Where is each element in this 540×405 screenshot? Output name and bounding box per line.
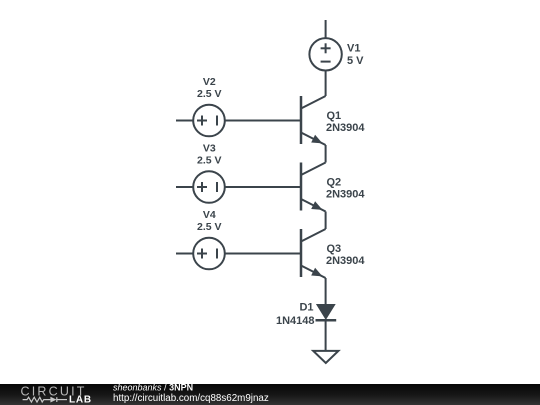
svg-text:2.5 V: 2.5 V (197, 88, 222, 100)
CircuitLab logo squiggle wire resistor diode (23, 397, 67, 403)
svg-text:http://circuitlab.com/cq88s62m: http://circuitlab.com/cq88s62m9jnaz (113, 393, 269, 404)
CircuitLab logo text CIRCUIT (21, 385, 87, 399)
voltage source V4 value label (197, 221, 222, 233)
voltage source V4 body (193, 238, 225, 270)
svg-text:2N3904: 2N3904 (326, 122, 365, 134)
wire left stub of V4 (176, 253, 193, 255)
transistor Q3 base bar (300, 229, 303, 277)
svg-text:5 V: 5 V (347, 55, 364, 67)
voltage source V3 body (193, 171, 225, 203)
svg-text:Q3: Q3 (327, 243, 342, 255)
svg-text:sheonbanks / 3NPN: sheonbanks / 3NPN (113, 383, 193, 393)
transistor Q2 emitter lead with arrow (301, 199, 326, 212)
voltage source V1 value label (347, 55, 364, 67)
svg-text:V4: V4 (203, 209, 216, 221)
ground symbol (313, 351, 338, 363)
svg-text:2.5 V: 2.5 V (197, 221, 222, 233)
wire from V4 to base (226, 253, 302, 255)
voltage source V1 name label (347, 43, 360, 55)
diode D1 name label (299, 302, 313, 314)
svg-text:2.5 V: 2.5 V (197, 154, 222, 166)
transistor Q3 emitter lead with arrow (301, 266, 326, 279)
wire left stub of V2 (176, 120, 193, 122)
voltage source V2 value label (197, 88, 222, 100)
wire top stub above V1 (325, 20, 327, 38)
transistor Q3 name label (327, 243, 342, 255)
transistor Q2 name label (327, 177, 342, 189)
wire from V3 to base (226, 186, 302, 188)
diode D1 body (316, 305, 337, 321)
voltage source V2 body (193, 105, 225, 137)
svg-text:LAB: LAB (69, 395, 92, 405)
voltage source V3 value label (197, 154, 222, 166)
transistor Q1 collector lead (301, 96, 326, 109)
svg-text:1N4148: 1N4148 (276, 315, 315, 327)
wire left stub of V3 (176, 186, 193, 188)
transistor Q3 value label 2N3904 (326, 255, 365, 267)
wire from V2 to base (226, 120, 302, 122)
transistor Q2 collector lead (301, 163, 326, 176)
svg-text:V2: V2 (203, 76, 216, 88)
transistor Q1 emitter lead with arrow (301, 133, 326, 146)
voltage source V4 name label (203, 209, 216, 221)
diode D1 value label 1N4148 (276, 315, 315, 327)
footer author/title text (113, 383, 269, 404)
transistor Q1 base bar (300, 96, 303, 144)
transistor Q1 name label (327, 110, 342, 122)
transistor Q1 value label 2N3904 (326, 122, 365, 134)
svg-text:V3: V3 (203, 143, 216, 155)
transistor Q2 base bar (300, 163, 303, 211)
svg-text:V1: V1 (347, 43, 360, 55)
footer bar (0, 384, 540, 405)
wire D1 cathode to ground (325, 320, 327, 350)
voltage source V3 name label (203, 143, 216, 155)
voltage source V2 name label (203, 76, 216, 88)
wire V1 to Q1 collector (325, 71, 327, 96)
svg-text:Q1: Q1 (327, 110, 342, 122)
svg-text:Q2: Q2 (327, 177, 342, 189)
CircuitLab logo text LAB (69, 395, 92, 405)
svg-text:D1: D1 (299, 302, 313, 314)
transistor Q3 collector lead (301, 229, 326, 242)
wire Q3 emitter to D1 anode (325, 278, 327, 305)
wire Q1 emitter to Q2 collector (325, 145, 327, 163)
voltage source V1 body (309, 38, 341, 70)
svg-text:2N3904: 2N3904 (326, 255, 365, 267)
svg-text:2N3904: 2N3904 (326, 189, 365, 201)
transistor Q2 value label 2N3904 (326, 189, 365, 201)
wire Q2 emitter to Q3 collector (325, 212, 327, 230)
